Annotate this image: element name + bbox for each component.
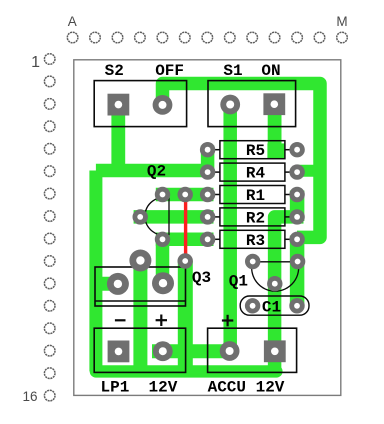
svg-text:Q1: Q1 [229,273,248,291]
svg-text:R1: R1 [246,187,265,205]
svg-text:ON: ON [261,62,280,80]
svg-text:R4: R4 [246,165,266,183]
svg-text:16: 16 [22,389,37,404]
svg-text:R5: R5 [246,142,265,160]
svg-text:1: 1 [31,54,40,71]
svg-text:Q3: Q3 [192,269,211,287]
svg-text:R3: R3 [246,232,265,250]
svg-text:OFF: OFF [155,62,184,80]
svg-text:Q2: Q2 [147,162,166,180]
svg-text:R2: R2 [246,209,265,227]
svg-text:M: M [336,14,347,29]
svg-text:A: A [68,14,77,29]
svg-text:ACCU 12V: ACCU 12V [208,379,285,397]
svg-text:LP1 12V: LP1 12V [100,379,177,397]
svg-text:C1: C1 [262,298,281,316]
svg-text:S1: S1 [223,62,242,80]
svg-text:S2: S2 [105,62,124,80]
